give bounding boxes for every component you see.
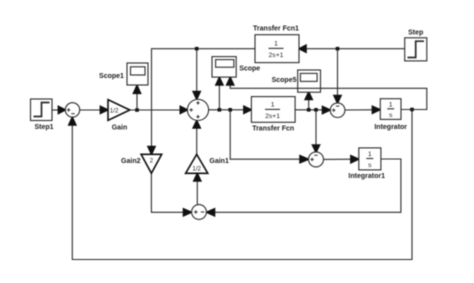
wire to Scope5 bbox=[305, 92, 312, 110]
block Step bbox=[405, 38, 427, 61]
wire to Scope1 bbox=[134, 86, 141, 111]
svg-text:2: 2 bbox=[150, 158, 154, 165]
wire scope input2 passes over Scope5 bbox=[298, 87, 321, 89]
block Integrator1 bbox=[359, 148, 381, 170]
block Scope5 bbox=[298, 70, 321, 92]
junction integrator-out bbox=[410, 108, 414, 112]
wire Integrator1 loop to Sum4 right bbox=[207, 159, 401, 216]
svg-text:Transfer Fcn1: Transfer Fcn1 bbox=[253, 26, 299, 33]
svg-text:Scope5: Scope5 bbox=[272, 77, 297, 84]
svg-text:1/2: 1/2 bbox=[192, 165, 201, 172]
block TransferFcn bbox=[251, 97, 295, 123]
wire to Scope input1 bbox=[216, 77, 223, 109]
wire Sum3 to Integrator1 bbox=[324, 156, 359, 163]
svg-text:Gain2: Gain2 bbox=[121, 158, 141, 165]
block Scope bbox=[212, 57, 236, 78]
block TransferFcn1 bbox=[255, 35, 299, 63]
junction sumbig-out at x219 bbox=[218, 108, 222, 112]
svg-text:Gain: Gain bbox=[112, 125, 128, 132]
wire Sum4 up to Gain1 bbox=[194, 174, 201, 205]
junction top wire at x337 bbox=[336, 47, 340, 51]
wire branch down to Sum3 left bbox=[230, 110, 308, 163]
wire Step1 to Sum1 bbox=[52, 106, 65, 113]
wire branch to Sum2 top bbox=[334, 49, 341, 103]
wire Step to TransferFcn1 bbox=[299, 45, 405, 52]
block Scope1 bbox=[127, 63, 148, 85]
svg-text:Integrator1: Integrator1 bbox=[348, 173, 385, 180]
wire TransferFcn out to Sum2 bbox=[295, 107, 330, 114]
block Integrator bbox=[380, 99, 401, 120]
wire outer feedback loop bbox=[69, 110, 412, 260]
sum SumBig bbox=[187, 99, 208, 120]
svg-text:Gain1: Gain1 bbox=[209, 158, 229, 165]
svg-text:1: 1 bbox=[271, 101, 275, 108]
svg-text:1: 1 bbox=[274, 40, 278, 47]
wire Integrator out up to Scope input2 bbox=[227, 77, 427, 109]
wire TransferFcn1 out to Gain2 bbox=[148, 49, 255, 155]
svg-text:Scope: Scope bbox=[239, 65, 260, 72]
svg-text:s: s bbox=[368, 162, 372, 169]
svg-text:1: 1 bbox=[368, 151, 372, 158]
wire branch down to Sum3 top bbox=[313, 110, 320, 152]
wire Gain2 to Sum4 left bbox=[151, 173, 191, 216]
junction tf-out at x316 bbox=[314, 108, 318, 112]
sum Sum1 bbox=[65, 103, 79, 117]
svg-text:Step1: Step1 bbox=[34, 124, 53, 131]
svg-text:2s+1: 2s+1 bbox=[265, 113, 280, 120]
junction tf-out at x308.7 bbox=[307, 108, 311, 112]
svg-text:1: 1 bbox=[389, 101, 393, 108]
svg-text:s: s bbox=[389, 112, 393, 119]
svg-text:Step: Step bbox=[408, 30, 423, 37]
sum Sum4 bbox=[192, 205, 207, 220]
junction sumbig-out at x230 bbox=[228, 108, 232, 112]
sum Sum2 bbox=[330, 103, 345, 118]
wire Sum2 to Integrator bbox=[345, 106, 380, 113]
wire Gain1 up to SumBig bottom bbox=[193, 121, 200, 155]
svg-text:2s+1: 2s+1 bbox=[269, 52, 284, 59]
wire SumBig out to TransferFcn bbox=[209, 106, 252, 113]
gain Gain1 bbox=[186, 154, 208, 173]
svg-text:Scope1: Scope1 bbox=[99, 73, 124, 80]
gain Gain2 bbox=[141, 154, 162, 173]
svg-text:1/2: 1/2 bbox=[110, 108, 119, 115]
svg-text:Transfer Fcn: Transfer Fcn bbox=[252, 126, 294, 133]
sum Sum3 bbox=[309, 152, 324, 167]
block Step1 bbox=[31, 99, 53, 121]
wire Sum1 to Gain bbox=[80, 106, 108, 113]
wire Gain to SumBig bbox=[130, 106, 188, 113]
gain Gain bbox=[108, 100, 130, 121]
wire branch to SumBig top bbox=[193, 49, 200, 99]
junction top wire at x197 bbox=[195, 47, 199, 51]
junction gain-out bbox=[135, 108, 139, 112]
svg-text:Integrator: Integrator bbox=[374, 124, 407, 131]
